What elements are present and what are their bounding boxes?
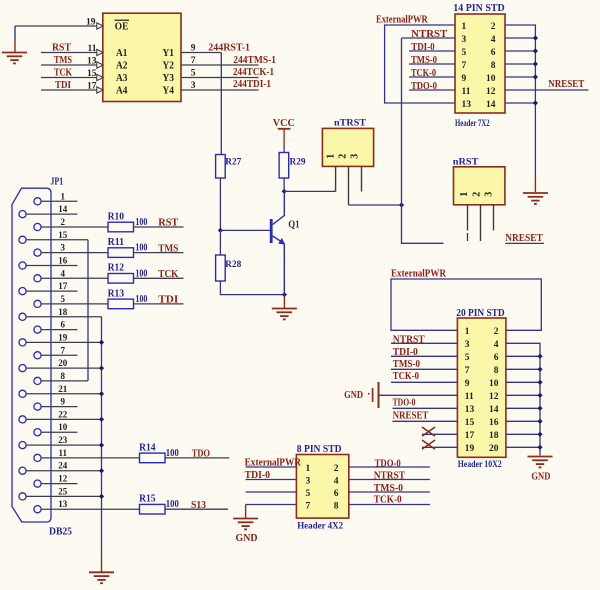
svg-text:23: 23: [58, 435, 68, 445]
nRST pin 3 lead: [493, 205, 495, 231]
wire pin1 ExternalPWR: [246, 466, 297, 468]
svg-text:9: 9: [462, 74, 467, 84]
svg-text:TCK-0: TCK-0: [374, 494, 402, 505]
wire pin5 TDI-0: [409, 50, 455, 52]
svg-text:nTRST: nTRST: [334, 119, 367, 129]
svg-text:1: 1: [306, 464, 311, 474]
JP1 pin 9 circle: [34, 403, 41, 410]
svg-text:Y1: Y1: [163, 48, 175, 59]
svg-text:3: 3: [465, 340, 470, 350]
svg-text:13: 13: [58, 499, 68, 509]
JP1 pin 8 circle: [34, 377, 41, 384]
svg-text:TMS: TMS: [54, 55, 72, 66]
junction junction bus pin 24: [99, 468, 104, 473]
nRST pin 1 lead: [467, 205, 469, 231]
wire pin7 TMS-0: [391, 368, 457, 370]
svg-text:Y2: Y2: [163, 61, 175, 72]
no-connect X pin17: [422, 427, 435, 436]
JP1 pin 4 circle: [34, 275, 41, 282]
JP1 pin 14 circle: [19, 211, 26, 218]
resistor R11 body: [108, 248, 134, 258]
svg-text:2: 2: [471, 192, 482, 197]
svg-text:19: 19: [465, 444, 475, 454]
svg-text:4: 4: [61, 268, 66, 278]
svg-text:2: 2: [494, 327, 499, 337]
svg-text:R11: R11: [108, 237, 125, 248]
JP1 pin 21 circle: [19, 390, 26, 397]
connector 8 PIN STD box (Header 4X2): [296, 455, 348, 519]
wire pin15 NRESET: [393, 420, 458, 422]
svg-text:22: 22: [58, 409, 68, 419]
svg-text:TCK-0: TCK-0: [393, 371, 419, 382]
input arrow A2: [97, 62, 103, 68]
wire pin9 TCK-0: [391, 381, 457, 383]
ground stem (below 8-pin): [245, 505, 247, 519]
svg-text:GND: GND: [344, 390, 363, 401]
svg-text:TDI: TDI: [158, 295, 178, 306]
svg-text:5: 5: [465, 353, 470, 363]
svg-text:8: 8: [494, 366, 499, 376]
wire pin5 stub: [246, 491, 297, 493]
wire JP1 pin 19: [26, 341, 102, 343]
svg-text:21: 21: [58, 384, 68, 394]
svg-text:S13: S13: [191, 500, 206, 511]
svg-text:19: 19: [86, 17, 96, 27]
JP1 pin 23 circle: [19, 442, 26, 449]
wire R11 to TMS: [134, 252, 184, 254]
wire R14 to TDO: [165, 457, 229, 459]
svg-text:20: 20: [58, 358, 68, 368]
wire collector junction to nTRST pin1: [284, 190, 335, 192]
wire pin3 NTRST: [402, 37, 456, 39]
junction junction pin10: [537, 380, 542, 385]
JP1 pin 6 circle: [34, 326, 41, 333]
svg-text:NRESET: NRESET: [393, 410, 429, 421]
wire R27 to base junction: [219, 178, 221, 230]
connector JP1 DB25 outline: [12, 188, 51, 522]
wire pin12 to ground rail: [506, 394, 540, 396]
svg-text:2: 2: [491, 22, 496, 32]
wire pin8 to ground rail: [506, 368, 540, 370]
wire Y4 output 244TDI-1: [181, 89, 259, 91]
wire Y1 output 244RST-1: [181, 52, 221, 54]
junction junction bus pin 23: [99, 443, 104, 448]
svg-text:R27: R27: [225, 157, 241, 167]
svg-text:TDO: TDO: [192, 449, 210, 460]
ground (top-left, at buffer OE pin 19): [14, 26, 16, 52]
JP1 pin 19 circle: [19, 339, 26, 346]
JP1 pin 15 circle: [19, 236, 26, 243]
svg-text:Y4: Y4: [163, 86, 175, 97]
svg-text:17: 17: [58, 281, 68, 291]
svg-text:13: 13: [462, 100, 472, 110]
wire R28 to emitter/ground: [220, 281, 284, 295]
wire JP1 pin 1: [41, 200, 78, 202]
svg-text:244TCK-1: 244TCK-1: [233, 67, 274, 78]
svg-text:nRST: nRST: [453, 157, 480, 167]
JP1 pin 13 circle: [34, 506, 41, 513]
resistor R14 body: [140, 453, 166, 463]
wire pin4 NTRST: [349, 479, 430, 481]
wire R10 to RST: [134, 226, 184, 228]
svg-text:10: 10: [58, 422, 68, 432]
ground bars (top-left): [2, 53, 27, 64]
svg-text:9: 9: [61, 397, 66, 407]
wire JP1 pin 13: [41, 508, 140, 510]
JP1 pin 24 circle: [19, 467, 26, 474]
wire pin17 stub: [422, 433, 457, 435]
JP1 pin 20 circle: [19, 365, 26, 372]
wire junction to R28: [219, 230, 221, 255]
svg-text:2: 2: [334, 464, 339, 474]
wire JP1 pin 2: [41, 226, 108, 228]
wire input RST to buffer: [41, 52, 97, 54]
wire pin7 to ground: [246, 504, 297, 506]
wire pin11 GND: [379, 394, 458, 396]
junction junction pin20: [537, 445, 542, 450]
svg-text:244RST-1: 244RST-1: [208, 42, 250, 53]
svg-text:18: 18: [489, 431, 499, 441]
ground bars (right of 14-pin): [523, 193, 548, 204]
ground bars (below 20-pin): [528, 457, 553, 468]
junction junction pin8: [533, 61, 538, 66]
JP1 pin 5 circle: [34, 300, 41, 307]
ground (below Q1) stem: [283, 295, 285, 309]
svg-text:18: 18: [58, 307, 68, 317]
junction junction bus pin 21: [99, 391, 104, 396]
svg-text:24: 24: [58, 461, 68, 471]
svg-text:12: 12: [486, 87, 496, 97]
JP1 pin 22 circle: [19, 416, 26, 423]
svg-text:3: 3: [462, 35, 467, 45]
wire R12 to TCK: [134, 277, 184, 279]
svg-text:14: 14: [58, 204, 68, 214]
junction junction pin8: [537, 367, 542, 372]
svg-text:R29: R29: [290, 157, 306, 167]
svg-text:9: 9: [465, 379, 470, 389]
svg-text:A1: A1: [116, 48, 128, 59]
wire pin14 to ground rail: [505, 102, 535, 104]
svg-text:ExternalPWR: ExternalPWR: [376, 15, 428, 26]
svg-text:10: 10: [489, 379, 499, 389]
wire JP1 pin 6: [41, 329, 78, 331]
svg-text:R13: R13: [108, 288, 125, 299]
junction junction pin6: [537, 354, 542, 359]
svg-text:NRESET: NRESET: [505, 233, 542, 244]
wire JP1 pin 3: [41, 252, 108, 254]
svg-text:GND: GND: [531, 472, 550, 483]
wire pin5 TDI-0: [391, 355, 457, 357]
svg-text:Y3: Y3: [163, 73, 175, 84]
svg-text:R15: R15: [139, 494, 156, 505]
wire ExternalPWR loop pins 1-13: [385, 25, 455, 103]
wire JP1 pin 8: [41, 380, 88, 382]
svg-text:12: 12: [489, 392, 499, 402]
wire pin6 to ground rail: [506, 355, 540, 357]
junction junction pin6: [533, 48, 538, 53]
svg-text:6: 6: [494, 353, 499, 363]
svg-text:13: 13: [87, 57, 97, 67]
input arrow A4: [97, 87, 103, 93]
svg-text:16: 16: [58, 256, 68, 266]
svg-text:JP1: JP1: [50, 177, 63, 188]
svg-text:8 PIN STD: 8 PIN STD: [297, 444, 342, 455]
junction junction pin4: [533, 35, 538, 40]
svg-text:17: 17: [465, 431, 475, 441]
svg-text:4: 4: [491, 35, 496, 45]
svg-text:10: 10: [486, 74, 496, 84]
svg-text:6: 6: [61, 320, 66, 330]
wire pin13 TDO-0: [393, 407, 458, 409]
wire R29 to collector junction: [283, 178, 285, 191]
svg-text:25: 25: [58, 486, 68, 496]
svg-text:GND: GND: [236, 533, 258, 544]
wire NTRST vertical from 14-pin header: [401, 38, 403, 205]
svg-text:NTRST: NTRST: [393, 335, 425, 346]
svg-text:6: 6: [334, 489, 339, 499]
wire JP1 pin 22: [26, 418, 102, 420]
svg-text:11: 11: [59, 448, 68, 458]
JP1 pin 1 circle: [34, 198, 41, 205]
svg-text:R12: R12: [108, 263, 125, 274]
svg-text:NRESET: NRESET: [548, 79, 584, 90]
wire JP1 pin 16: [26, 265, 78, 267]
junction junction bus pin 25: [99, 494, 104, 499]
junction junction pin14: [537, 406, 542, 411]
resistor R27 body: [216, 155, 226, 179]
wire pin2 TDO-0: [349, 466, 430, 468]
wire JP1 pin 25: [26, 495, 102, 497]
svg-text:TMS-0: TMS-0: [393, 359, 420, 370]
wire pin3 NTRST: [391, 342, 457, 344]
wire JP1 pin 9: [41, 406, 78, 408]
svg-text:RST: RST: [158, 218, 178, 229]
svg-text:TCK: TCK: [54, 67, 73, 78]
svg-text:OE: OE: [115, 22, 129, 33]
wire pin11 TDO-0: [409, 89, 455, 91]
wire NTRST to below nRST: [402, 205, 444, 243]
junction junction bus pin 20: [99, 366, 104, 371]
svg-text:12: 12: [58, 474, 68, 484]
svg-text:11: 11: [465, 392, 474, 402]
svg-text:244TMS-1: 244TMS-1: [233, 55, 276, 66]
svg-text:7: 7: [465, 366, 470, 376]
junction junction bus pin 19: [99, 340, 104, 345]
svg-text:13: 13: [465, 405, 475, 415]
svg-text:3: 3: [191, 81, 196, 91]
wire input TDI to buffer: [41, 89, 97, 91]
svg-text:4: 4: [334, 476, 339, 486]
svg-text:3: 3: [306, 476, 311, 486]
wire pin19 stub: [422, 446, 457, 448]
wire JP1 pin 20: [26, 367, 102, 369]
wire Y3 output 244TCK-1: [181, 77, 259, 79]
svg-text:DB25: DB25: [49, 526, 72, 537]
resistor R29 body: [279, 153, 289, 179]
svg-text:4: 4: [494, 340, 499, 350]
resistor R15 body: [140, 504, 166, 514]
svg-text:TDO-0: TDO-0: [393, 398, 416, 409]
svg-text:8: 8: [334, 501, 339, 511]
junction node emitter/ground: [282, 292, 287, 297]
svg-text:TCK: TCK: [158, 269, 179, 280]
wire R13 to TDI: [134, 303, 184, 305]
junction junction pin10: [533, 74, 538, 79]
resistor R10 body: [108, 222, 134, 232]
svg-text:1: 1: [459, 192, 470, 197]
svg-text:15: 15: [87, 69, 97, 79]
svg-text:1: 1: [325, 154, 336, 159]
svg-text:14 PIN STD: 14 PIN STD: [453, 3, 505, 14]
wire input TMS to buffer: [41, 64, 97, 66]
connector nRST box: [454, 167, 505, 205]
wire NRESET stub under label: [505, 242, 544, 244]
svg-text:7: 7: [462, 61, 467, 71]
wire JP1 pin 17: [26, 290, 78, 292]
junction junction bus pin 22: [99, 417, 104, 422]
wire JP1 pin 21: [26, 393, 102, 395]
svg-text:15: 15: [58, 230, 68, 240]
svg-text:8: 8: [61, 371, 66, 381]
resistor R28 body: [216, 255, 226, 281]
wire pin10 to ground rail: [506, 381, 540, 383]
JP1 pin 18 circle: [19, 313, 26, 320]
svg-text:6: 6: [491, 48, 496, 58]
nTRST pin 1 lead: [335, 166, 337, 191]
wire OE pin19 to ground: [15, 25, 97, 27]
svg-text:A3: A3: [116, 73, 128, 84]
nRST pin 1 wire stub: [467, 233, 469, 241]
svg-text:5: 5: [306, 489, 311, 499]
svg-text:11: 11: [88, 44, 97, 54]
wire pin10 to ground rail: [505, 76, 535, 78]
svg-text:8: 8: [491, 61, 496, 71]
transistor Q1: [271, 191, 284, 294]
svg-text:5: 5: [191, 69, 196, 79]
svg-text:7: 7: [306, 501, 311, 511]
nTRST pin 3 lead: [361, 166, 363, 191]
svg-text:9: 9: [191, 44, 196, 54]
junction node NTRST: [399, 202, 404, 207]
svg-text:3: 3: [61, 243, 66, 253]
svg-text:Header 10X2: Header 10X2: [458, 460, 502, 470]
wire pin12 NRESET: [505, 89, 588, 91]
wire JP1 pin 5: [41, 303, 108, 305]
wire GND bus vertical (DB25): [101, 317, 103, 557]
op-amp/buffer U1 (74HC244) box: [103, 13, 181, 101]
input arrow A1: [97, 49, 103, 55]
svg-text:R14: R14: [139, 442, 156, 453]
svg-text:ExternalPWR: ExternalPWR: [391, 269, 447, 280]
nRST pin 2 lead: [480, 205, 482, 241]
wire pin18 to ground rail: [506, 433, 540, 435]
wire JP1 pin 11: [41, 457, 140, 459]
svg-text:15: 15: [465, 418, 475, 428]
JP1 pin 2 circle: [34, 223, 41, 230]
svg-text:Header 4X2: Header 4X2: [297, 522, 343, 532]
svg-text:3: 3: [349, 154, 360, 159]
junction node R27/R28/base: [218, 228, 223, 233]
wire pin16 to ground rail: [506, 420, 540, 422]
wire net 244RST-1 vertical to R27: [220, 53, 222, 155]
JP1 pin 7 circle: [34, 352, 41, 359]
svg-text:Header 7X2: Header 7X2: [455, 119, 490, 129]
ground bars (below Q1): [272, 309, 297, 320]
connector nTRST box: [322, 128, 373, 166]
wire pin3 TDI-0: [246, 479, 297, 481]
wire pin7 TMS-0: [409, 63, 455, 65]
connector 20 PIN STD box (Header 10X2): [457, 318, 506, 457]
input arrow pin 19: [97, 23, 103, 29]
resistor R13 body: [108, 299, 134, 309]
svg-text:TDI: TDI: [55, 80, 71, 91]
svg-text:5: 5: [61, 294, 66, 304]
wire JP1 pin 4: [41, 277, 108, 279]
junction junction pin16: [537, 419, 542, 424]
svg-text:7: 7: [61, 345, 66, 355]
ground stem (bottom DB25 bus): [101, 557, 103, 572]
svg-text:Q1: Q1: [288, 219, 299, 230]
JP1 pin 25 circle: [19, 493, 26, 500]
wire JP1 pin 7: [41, 354, 78, 356]
svg-text:R28: R28: [225, 259, 241, 269]
wire pin6 to ground rail: [505, 50, 535, 52]
wire JP1 pin 23: [26, 444, 102, 446]
wire JP1 pin 15: [26, 239, 88, 241]
svg-text:14: 14: [486, 100, 496, 110]
svg-text:244TDI-1: 244TDI-1: [233, 79, 271, 90]
wire JP1 pin 10: [41, 431, 78, 433]
svg-text:5: 5: [462, 48, 467, 58]
wire pin4 to ground rail: [506, 343, 540, 455]
junction node collector/nTRST: [282, 189, 287, 194]
svg-text:3: 3: [484, 192, 495, 197]
input arrow A3: [97, 74, 103, 80]
svg-text:20: 20: [489, 444, 499, 454]
svg-text:19: 19: [58, 332, 68, 342]
svg-text:7: 7: [191, 56, 196, 66]
resistor R12 body: [108, 274, 134, 284]
wire pin8 TCK-0: [349, 504, 430, 506]
wire pin20 to ground rail: [506, 446, 540, 448]
junction junction pin12: [537, 393, 542, 398]
wire R15 to S13: [165, 508, 228, 510]
svg-text:R10: R10: [108, 211, 125, 222]
wire pin4 to ground rail: [505, 37, 535, 39]
wire pin14 to ground rail: [506, 407, 540, 409]
JP1 pin 11 circle: [34, 454, 41, 461]
junction junction pin18: [537, 432, 542, 437]
wire JP1 pin 18: [26, 316, 102, 318]
wire JP1 pin 24: [26, 470, 102, 472]
svg-text:TMS: TMS: [158, 243, 178, 254]
wire pin9 TCK-0: [409, 76, 455, 78]
ground bars (bottom): [89, 572, 114, 583]
no-connect X pin19: [422, 440, 435, 449]
ground bars (below 8-pin): [233, 519, 258, 530]
svg-text:2: 2: [61, 217, 66, 227]
svg-text:17: 17: [87, 82, 97, 92]
svg-text:14: 14: [489, 405, 499, 415]
wire base wire to Q1: [220, 229, 269, 231]
JP1 pin 12 circle: [34, 480, 41, 487]
svg-text:1: 1: [465, 327, 470, 337]
svg-text:1: 1: [462, 22, 467, 32]
svg-text:A4: A4: [116, 86, 128, 97]
wire JP1 pin 14: [26, 213, 78, 215]
connector 14 PIN STD box (Header 7X2): [455, 14, 505, 113]
wire pin15 to pin8 vertical: [87, 240, 89, 381]
